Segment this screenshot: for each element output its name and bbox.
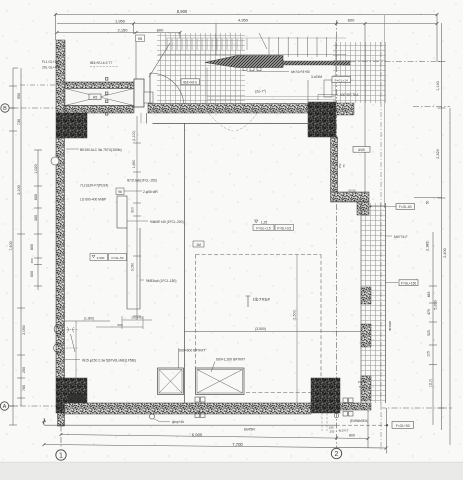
svg-text:1,950: 1,950 — [115, 18, 126, 23]
grid line 1 — [60, 414, 62, 449]
svg-text:150: 150 — [329, 426, 334, 430]
top dim row 3 — [57, 33, 180, 80]
bottom right corner block — [311, 378, 340, 413]
svg-text:150 50: 150 50 — [358, 380, 367, 384]
dim label box 95 — [136, 35, 145, 42]
tiny wall markers — [106, 78, 108, 116]
signage post at porch right — [324, 80, 332, 97]
svg-text:Ek#5R: Ek#5R — [244, 428, 255, 432]
right facade pilaster 1 — [361, 287, 371, 304]
svg-text:600: 600 — [30, 271, 34, 277]
svg-text:600×1,200 B#7K#7: 600×1,200 B#7K#7 — [216, 358, 245, 362]
svg-text:1,140: 1,140 — [436, 81, 440, 91]
dim ticks top — [54, 13, 439, 34]
right facade tile band — [361, 203, 386, 403]
axis bubble 2 — [331, 448, 341, 458]
F=GL+150 box — [386, 282, 399, 284]
door jamb line below band — [146, 113, 148, 124]
left wall corner block bottom — [56, 378, 87, 413]
svg-text:260 (45): 260 (45) — [131, 316, 142, 320]
comb ticks fine — [167, 39, 247, 51]
level box at porch right — [332, 77, 351, 83]
svg-text:(1,500): (1,500) — [293, 310, 297, 321]
right wall jog corner — [357, 202, 369, 215]
svg-text:3-aT#M: 3-aT#M — [311, 75, 322, 79]
ramp diagonal at porch edge — [149, 43, 170, 77]
right facade pilaster 3 — [361, 376, 371, 401]
svg-text:5,200: 5,200 — [434, 300, 438, 310]
canopy thin strip right — [283, 61, 350, 65]
svg-text:φtop+4#: φtop+4# — [172, 420, 184, 424]
svg-text:525: 525 — [427, 330, 431, 336]
storefront sign note — [247, 71, 289, 73]
svg-text:BE150 ALC 3w 757!J(150tb): BE150 ALC 3w 757!J(150tb) — [80, 148, 122, 152]
sales room north wall line — [153, 123, 309, 125]
svg-text:200: 200 — [330, 430, 335, 434]
F=GL-60 box — [369, 206, 396, 208]
svg-text:6,900: 6,900 — [192, 432, 203, 437]
axis bubble 1 — [56, 450, 66, 460]
svg-text:F=GL+14: F=GL+14 — [335, 78, 348, 82]
svg-text:94lb5E t40 (1FCL-200): 94lb5E t40 (1FCL-200) — [150, 220, 184, 224]
svg-text:F=GL-60: F=GL-60 — [399, 205, 412, 209]
svg-text:800: 800 — [349, 434, 355, 438]
left wall corner block top — [56, 113, 87, 138]
porch band stub right of block — [336, 103, 354, 115]
svg-text:(E#94lb5EU): (E#94lb5EU) — [350, 419, 368, 423]
svg-text:F=SL-50: F=SL-50 — [112, 256, 124, 260]
svg-text:F=GL+50: F=GL+50 — [396, 424, 410, 428]
entrance door swing arc — [150, 73, 184, 107]
svg-text:150: 150 — [30, 258, 34, 263]
svg-text:2,050: 2,050 — [22, 325, 26, 335]
svg-text:9MEAu# (1FCL-150): 9MEAu# (1FCL-150) — [146, 279, 176, 283]
svg-text:600 957,7EA: 600 957,7EA — [340, 93, 359, 97]
partition channel lines — [127, 228, 140, 309]
svg-text:7Lz1&2#-F7(PD24): 7Lz1&2#-F7(PD24) — [80, 184, 108, 188]
entrance sliding door dashed arcs — [209, 114, 233, 132]
svg-text:6,900: 6,900 — [177, 9, 188, 14]
comb ticks tall — [269, 37, 336, 57]
porch tile area left — [157, 33, 245, 103]
svg-text:800: 800 — [157, 27, 164, 32]
top wall insulation band with X brace — [65, 89, 134, 106]
trap light note — [318, 94, 338, 96]
drain pit 600x600 — [158, 368, 184, 395]
svg-text:LD 600-400 M/BP: LD 600-400 M/BP — [80, 198, 107, 202]
storefront comb line — [158, 54, 346, 56]
interior dim extension vertical — [296, 255, 298, 404]
left dim column 1 — [13, 68, 38, 425]
right dim labels (rotated) — [426, 81, 448, 387]
svg-text:300: 300 — [34, 215, 38, 221]
svg-text:2,100: 2,100 — [17, 185, 21, 195]
door jamb box — [134, 79, 144, 107]
svg-text:1,020: 1,020 — [34, 164, 38, 174]
bottom wall east piece — [340, 403, 371, 410]
svg-text:300: 300 — [131, 207, 135, 213]
svg-text:F=GL+150: F=GL+150 — [401, 282, 416, 286]
svg-text:9tB94lb: 9tB94lb — [388, 321, 392, 332]
svg-text:800: 800 — [348, 18, 355, 23]
dashdot vertical right wall — [380, 42, 382, 450]
door dim line left wall — [65, 320, 110, 322]
svg-text:(1,100): (1,100) — [132, 131, 136, 142]
svg-text:W15 φ150 2.3w 5lb7VdLxME(1F5tB: W15 φ150 2.3w 5lb7VdLxME(1F5tB) — [82, 359, 136, 363]
sales floor dashed rectangle — [196, 255, 322, 393]
wall spec callout — [66, 148, 79, 150]
svg-text:2-φ50 t#R: 2-φ50 t#R — [143, 190, 158, 194]
svg-text:250: 250 — [22, 367, 26, 373]
left dim labels (rotated) — [9, 93, 38, 391]
svg-text:(Zo-7°): (Zo-7°) — [255, 90, 266, 94]
svg-text:tB3>9!J-b: tB3>9!J-b — [183, 81, 197, 85]
mezzanine edge line — [185, 331, 362, 333]
svg-text:105: 105 — [427, 351, 431, 357]
svg-text:A: A — [3, 404, 7, 410]
right facade boundary lines — [360, 203, 362, 403]
porch step wall band — [148, 104, 308, 114]
left wall main strip — [56, 138, 65, 378]
partition sub-dims — [96, 316, 152, 329]
left wall stub below corner — [58, 413, 65, 426]
interior dim line with labels — [133, 116, 141, 320]
svg-text:tB3>9!J-b 2:T7: tB3>9!J-b 2:T7 — [90, 61, 112, 65]
svg-text:4,950: 4,950 — [238, 18, 249, 23]
porch left step line — [206, 68, 208, 104]
axis tag box top right — [353, 147, 370, 153]
level boxes left — [90, 254, 108, 261]
F=GL+50 box — [386, 424, 388, 426]
wall anchor marks left pair — [195, 397, 353, 418]
marker circle at wall bottom — [334, 413, 338, 417]
bottom wall band — [65, 403, 312, 414]
equipment tag box — [116, 188, 124, 195]
wall tag box in band — [89, 94, 101, 100]
left wall upper strip — [56, 40, 65, 113]
svg-text:1,650: 1,650 — [132, 160, 136, 169]
duct shaft rectangle — [117, 196, 127, 228]
svg-text:-lb17t°7: -lb17t°7 — [338, 428, 349, 432]
svg-text:75 50: 75 50 — [359, 385, 366, 389]
svg-text:96: 96 — [118, 190, 122, 194]
leader diagonal to canopy — [259, 33, 267, 49]
slab label box on porch — [181, 79, 200, 85]
svg-text:1: 1 — [59, 453, 63, 460]
svg-text:760: 760 — [22, 385, 26, 391]
room label tag box — [193, 241, 204, 247]
grid line A — [9, 405, 57, 407]
svg-text:730: 730 — [17, 119, 21, 125]
slope lines near wall — [207, 96, 335, 98]
svg-text:(3,500): (3,500) — [255, 327, 266, 331]
svg-text:FL1 GL+180: FL1 GL+180 — [42, 60, 60, 64]
entrance right corner block — [308, 102, 336, 137]
top dim row 1 — [55, 15, 437, 62]
top dim row 2 — [57, 24, 437, 193]
svg-text:1M: 1M — [196, 243, 201, 247]
scanner band at bottom — [0, 463, 463, 480]
bottom dim row 6900 — [44, 408, 387, 454]
svg-text:95: 95 — [138, 36, 143, 41]
louver spec note — [65, 359, 81, 361]
grid line B — [9, 107, 56, 109]
grid line 2 — [335, 20, 337, 448]
svg-text:tvb74>F4+50: tvb74>F4+50 — [291, 70, 310, 74]
svg-text:950: 950 — [17, 93, 21, 99]
svg-text:7,400: 7,400 — [9, 241, 13, 251]
svg-text:2,150: 2,150 — [117, 27, 128, 32]
top wall inner strip — [65, 106, 134, 114]
svg-text:tE*Z!Jwk(1FCL-150): tE*Z!Jwk(1FCL-150) — [127, 179, 157, 183]
faint vertical at 384.5 — [384, 15, 386, 208]
door pocket box — [144, 92, 153, 103]
svg-text:(110): (110) — [429, 379, 433, 387]
svg-text:2,500: 2,500 — [97, 256, 105, 260]
right facade pilaster 2 — [361, 324, 371, 347]
pipe circles on left wall — [54, 325, 63, 334]
svg-text:(1,300): (1,300) — [84, 317, 94, 321]
axis bubble B — [1, 104, 9, 112]
svg-text:800: 800 — [30, 244, 34, 250]
svg-text:(1,985): (1,985) — [426, 241, 430, 252]
svg-text:F=SL+0,5: F=SL+0,5 — [277, 226, 291, 230]
canopy hatched bar — [205, 56, 283, 68]
svg-text:2,400: 2,400 — [443, 248, 447, 258]
svg-text:M#77#-F: M#77#-F — [394, 235, 408, 239]
right horizontal dashdot lines — [350, 62, 452, 409]
tile callout — [127, 220, 148, 222]
axis bubble A — [0, 402, 8, 410]
porch tile area right — [333, 42, 386, 103]
svg-text:. . .: . . . — [274, 89, 278, 93]
dashdot left margin at B — [20, 84, 56, 86]
svg-text:F=GL+1,5: F=GL+1,5 — [256, 226, 271, 230]
top wall outer strip — [65, 82, 134, 89]
dashed verticals below wall right — [322, 413, 327, 431]
svg-text:1,25: 1,25 — [261, 221, 268, 225]
right wall jog strip — [331, 192, 370, 202]
svg-text:7,700: 7,700 — [232, 442, 243, 447]
svg-text:i#U5: i#U5 — [358, 148, 365, 152]
level mark T — [246, 296, 251, 307]
svg-text:2,320: 2,320 — [436, 149, 440, 159]
svg-text:50: 50 — [426, 201, 430, 205]
right wall upper strip — [331, 137, 338, 192]
svg-text:50 50: 50 50 — [349, 189, 356, 193]
svg-text:2: 2 — [335, 451, 339, 458]
left dim ticks — [9, 86, 42, 425]
svg-text:3,090: 3,090 — [131, 263, 135, 272]
level tag row center — [255, 220, 258, 223]
sleeve callout — [124, 190, 142, 192]
svg-text:465: 465 — [427, 292, 431, 298]
svg-text:B: B — [3, 106, 7, 112]
site boundary line — [44, 424, 336, 426]
svg-text:600: 600 — [117, 323, 122, 327]
svg-text:600: 600 — [34, 194, 38, 200]
insulation callout — [140, 279, 144, 281]
open facade note — [386, 235, 393, 237]
svg-text:475: 475 — [427, 309, 431, 315]
svg-text:2SL GL+405: 2SL GL+405 — [42, 66, 60, 70]
marks under canopy — [243, 68, 261, 71]
sales room west wall line — [184, 123, 186, 403]
hardware circle on wall — [51, 157, 59, 165]
svg-text:75: 75 — [342, 164, 346, 168]
downpipe circle — [149, 414, 154, 419]
svg-text:tlb7#5#: tlb7#5# — [253, 297, 270, 302]
drain pit 600x1200 — [196, 368, 245, 395]
entrance door leaf — [149, 73, 151, 107]
svg-text:600×600 B#7K#7°: 600×600 B#7K#7° — [179, 349, 207, 353]
svg-text:A5: A5 — [93, 95, 97, 99]
